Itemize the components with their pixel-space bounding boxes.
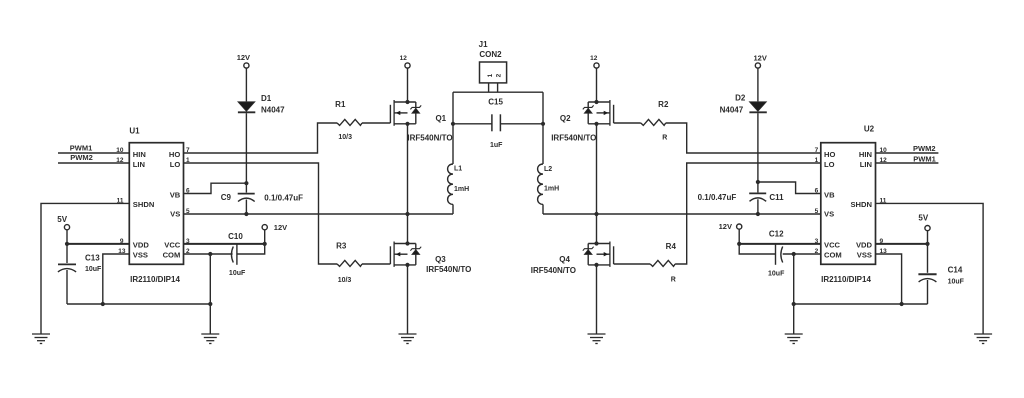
junction rail/ground right <box>792 302 796 306</box>
svg-text:PWM1: PWM1 <box>913 154 936 163</box>
svg-text:1mH: 1mH <box>454 186 469 193</box>
svg-text:10uF: 10uF <box>85 266 102 273</box>
label C13 <box>85 253 102 273</box>
junction Q3 drain <box>405 241 409 245</box>
label 5V left <box>57 215 67 224</box>
transistor Q1 IRF540N/TO <box>390 100 421 126</box>
IC U1 IR2110/DIP14 body <box>129 143 183 265</box>
svg-text:13: 13 <box>880 248 888 255</box>
label L2 <box>544 166 559 193</box>
junction 5V/VDD/C14 <box>925 242 929 246</box>
value 1uF C15 <box>490 142 503 149</box>
terminal 12V top left <box>244 63 249 68</box>
wire PWM1 to U1 HIN pin 10 <box>58 152 129 154</box>
value R R2 <box>662 134 667 141</box>
wire terminal to Q1 drain <box>407 68 409 102</box>
svg-text:IRF540N/TO: IRF540N/TO <box>426 265 471 274</box>
wire COM branch down to rail right <box>793 254 795 304</box>
svg-text:HO: HO <box>169 150 180 159</box>
svg-text:12: 12 <box>400 55 408 62</box>
junction D1/C9/VB <box>244 181 248 185</box>
net label PWM2 right <box>913 144 936 153</box>
svg-text:CON2: CON2 <box>479 50 502 59</box>
svg-text:L2: L2 <box>544 166 552 173</box>
svg-text:1uF: 1uF <box>490 142 503 149</box>
svg-text:5V: 5V <box>57 215 67 224</box>
svg-text:VS: VS <box>824 209 834 218</box>
svg-text:C13: C13 <box>85 253 100 262</box>
terminal 12 above Q1 <box>405 63 410 68</box>
value 0.1/0.47uF C11 <box>698 193 737 202</box>
label 12V mid left <box>274 223 287 232</box>
svg-text:1mH: 1mH <box>544 186 559 193</box>
svg-text:VCC: VCC <box>164 241 181 250</box>
svg-text:7: 7 <box>186 147 190 154</box>
svg-text:N4047: N4047 <box>720 106 744 115</box>
junction rail/COM branch <box>208 302 212 306</box>
label 12 above Q2 <box>590 55 598 62</box>
svg-text:VDD: VDD <box>133 241 150 250</box>
svg-text:U2: U2 <box>864 124 875 133</box>
wire U1 HO pin 7 to R1 <box>184 123 338 153</box>
svg-text:9: 9 <box>120 238 124 245</box>
junction D2/C11/VB <box>756 180 760 184</box>
diode D2 N4047 <box>749 102 766 113</box>
svg-text:COM: COM <box>824 251 842 260</box>
svg-text:C12: C12 <box>769 229 784 238</box>
wire left ground rail <box>67 303 210 305</box>
junction VCC/12V/C10 <box>263 242 267 246</box>
svg-text:PWM2: PWM2 <box>913 144 936 153</box>
label J1 <box>479 40 503 59</box>
capacitor C10 10uF <box>231 244 264 265</box>
capacitor C9 0.1/0.47uF <box>238 183 255 214</box>
resistor R3 10/3 <box>337 260 362 266</box>
wire 12V terminal down <box>738 229 740 244</box>
ground symbol right rail <box>785 334 803 344</box>
label U1 <box>129 126 140 135</box>
label 12V mid right <box>719 222 732 231</box>
svg-text:IRF540N/TO: IRF540N/TO <box>407 133 452 142</box>
wire terminal to Q2 drain <box>596 68 598 102</box>
svg-text:5: 5 <box>186 208 190 215</box>
svg-text:R1: R1 <box>335 100 346 109</box>
junction C11/VS <box>756 212 760 216</box>
svg-text:7: 7 <box>815 147 819 154</box>
svg-text:D2: D2 <box>735 94 746 103</box>
label 12V top left <box>237 53 250 62</box>
svg-text:1: 1 <box>487 73 494 77</box>
wire U2 HIN pin 10 to PWM2 <box>876 152 939 154</box>
wire U2 VB pin 6 step to bootstrap node <box>758 182 821 194</box>
wire COM branch down to rail <box>209 254 211 304</box>
net label PWM2 left <box>70 153 93 162</box>
label C9 <box>221 193 232 202</box>
svg-text:2: 2 <box>815 248 819 255</box>
U2 pin numbers <box>815 147 887 255</box>
resistor R4 R <box>650 260 675 266</box>
label C11 <box>769 193 784 202</box>
wire Q4 source to ground <box>596 265 598 334</box>
junction Q3 source <box>405 263 409 267</box>
svg-text:IRF540N/TO: IRF540N/TO <box>531 266 576 275</box>
svg-text:VSS: VSS <box>857 251 872 260</box>
wire PWM2 to U1 LIN pin 12 <box>58 162 129 164</box>
svg-text:Q2: Q2 <box>560 114 571 123</box>
wire Q3 source to ground <box>407 265 409 334</box>
label Q3 <box>426 255 471 274</box>
wire U1 SHDN pin 11 to ground <box>41 203 129 334</box>
svg-text:10/3: 10/3 <box>338 134 352 141</box>
terminal 12V mid right <box>737 224 742 229</box>
svg-text:C9: C9 <box>221 193 232 202</box>
wire R2 to U2 HO pin 7 <box>666 123 821 153</box>
resistor R2 R <box>641 119 666 125</box>
wire U1 VS pin 5 to L1 bottom <box>184 213 454 215</box>
J1 pin digits rotated <box>487 73 502 77</box>
svg-text:12V: 12V <box>719 222 732 231</box>
svg-text:5: 5 <box>815 208 819 215</box>
svg-text:3: 3 <box>815 238 819 245</box>
label IR2110/DIP14 U1 <box>130 275 180 284</box>
svg-text:11: 11 <box>880 197 887 204</box>
svg-text:10: 10 <box>880 147 888 154</box>
svg-text:HIN: HIN <box>859 150 872 159</box>
wire U2 VCC pin 3 to 12V node <box>739 243 821 245</box>
value 10/3 R1 <box>338 134 352 141</box>
svg-text:C11: C11 <box>769 193 784 202</box>
svg-text:PWM2: PWM2 <box>70 153 93 162</box>
junction COM/ground branch <box>208 252 212 256</box>
ground symbol under Q4 <box>588 334 606 344</box>
junction C15 right <box>541 122 545 126</box>
net label PWM1 right <box>913 154 936 163</box>
svg-text:6: 6 <box>186 187 190 194</box>
wire Q2 source to VS node <box>596 124 598 214</box>
junction Q2/Q4/VS <box>594 212 598 216</box>
svg-text:VB: VB <box>170 190 181 199</box>
wire Q4 gate to R4 <box>614 263 651 265</box>
svg-text:12V: 12V <box>237 53 250 62</box>
svg-text:1: 1 <box>186 157 190 164</box>
svg-text:HIN: HIN <box>133 150 146 159</box>
svg-text:12V: 12V <box>274 223 287 232</box>
label R1 <box>335 100 346 109</box>
svg-text:2: 2 <box>186 248 190 255</box>
wire Q2 gate to R2 <box>614 122 641 124</box>
wire J1 bus to C15 rails <box>453 92 543 124</box>
svg-text:13: 13 <box>118 248 126 255</box>
svg-text:10uF: 10uF <box>948 279 965 286</box>
svg-text:12: 12 <box>590 55 598 62</box>
svg-text:LO: LO <box>170 160 181 169</box>
wire 12V to D1 anode <box>245 68 247 101</box>
inductor L1 1mH <box>448 124 453 214</box>
U1 pin names <box>133 150 181 260</box>
svg-text:VSS: VSS <box>133 251 148 260</box>
svg-text:R: R <box>662 134 667 141</box>
inductor L2 1mH <box>538 124 543 214</box>
label Q2 <box>551 114 596 143</box>
label C10 <box>228 232 246 277</box>
junction Q1 source <box>405 122 409 126</box>
svg-text:SHDN: SHDN <box>850 200 872 209</box>
terminal 12V top right <box>755 63 760 68</box>
svg-text:C15: C15 <box>488 98 503 107</box>
wire R1 to Q1 gate <box>362 122 390 124</box>
svg-text:LIN: LIN <box>860 160 872 169</box>
svg-text:10uF: 10uF <box>229 270 246 277</box>
ground symbol left SHDN <box>32 334 50 344</box>
svg-text:R2: R2 <box>658 100 669 109</box>
U1 pin numbers <box>116 147 190 255</box>
value 0.1/0.47uF C9 <box>264 194 303 203</box>
label Q4 <box>531 255 576 275</box>
label Q1 <box>407 114 452 143</box>
wire 12V terminal down <box>264 230 266 244</box>
wire U2 VS pin 5 to L2 bottom <box>543 213 821 215</box>
wire D2 cathode to VB node <box>757 113 759 182</box>
svg-text:IRF540N/TO: IRF540N/TO <box>551 133 596 142</box>
svg-text:LO: LO <box>824 160 835 169</box>
junction VSS/rail <box>101 302 105 306</box>
junction C15 left <box>451 122 455 126</box>
label R4 <box>666 242 677 251</box>
ground symbol left rail <box>201 334 219 344</box>
svg-text:11: 11 <box>117 197 124 204</box>
IC U2 IR2110/DIP14 body <box>821 143 876 265</box>
wire D1 cathode to VB node <box>245 113 247 183</box>
svg-text:C14: C14 <box>948 266 963 275</box>
transistor Q4 IRF540N/TO <box>583 242 614 267</box>
svg-text:U1: U1 <box>129 126 140 135</box>
value R R4 <box>671 277 676 284</box>
junction Q1/Q3/VS <box>405 212 409 216</box>
connector J1 CON2 <box>480 62 507 92</box>
svg-text:Q3: Q3 <box>435 255 446 264</box>
wire U2 VSS pin 13 down to rail <box>876 254 902 304</box>
svg-text:6: 6 <box>815 187 819 194</box>
wire Q1 source to VS node <box>407 124 409 214</box>
svg-text:12: 12 <box>116 157 124 164</box>
terminal 5V right <box>925 226 930 231</box>
svg-text:10/3: 10/3 <box>338 277 352 284</box>
label R2 <box>658 100 669 109</box>
svg-text:PWM1: PWM1 <box>70 144 93 153</box>
label D1 <box>261 94 285 115</box>
label D2 <box>720 94 746 115</box>
resistor R1 10/3 <box>337 119 362 125</box>
wire R3 to Q3 gate <box>362 263 390 265</box>
svg-text:VS: VS <box>170 209 180 218</box>
capacitor C11 0.1/0.47uF <box>749 182 766 214</box>
wire 5V to U1 VDD pin 9 <box>67 230 129 244</box>
wire VS node to Q4 drain <box>596 214 598 244</box>
transistor Q3 IRF540N/TO <box>390 242 421 267</box>
svg-text:COM: COM <box>163 251 181 260</box>
svg-text:0.1/0.47uF: 0.1/0.47uF <box>264 194 303 203</box>
wire U1 VB pin 6 step to bootstrap node <box>184 183 247 193</box>
junction VSS/rail right <box>900 302 904 306</box>
label 12V top right <box>754 54 767 63</box>
junction C9/VS <box>244 212 248 216</box>
svg-text:R3: R3 <box>336 241 347 250</box>
svg-text:10: 10 <box>116 147 124 154</box>
label 5V right <box>918 214 928 223</box>
terminal 12 above Q2 <box>594 63 599 68</box>
svg-text:VDD: VDD <box>856 241 873 250</box>
svg-text:IR2110/DIP14: IR2110/DIP14 <box>821 275 871 284</box>
svg-text:12: 12 <box>880 157 888 164</box>
value 10/3 R3 <box>338 277 352 284</box>
svg-text:R4: R4 <box>666 242 677 251</box>
wire VS node to Q3 drain <box>407 214 409 244</box>
svg-text:0.1/0.47uF: 0.1/0.47uF <box>698 193 737 202</box>
junction Q4 drain <box>594 241 598 245</box>
transistor Q2 IRF540N/TO <box>583 100 614 126</box>
svg-text:10uF: 10uF <box>768 271 785 278</box>
wire rail to ground under C10 branch <box>209 304 211 334</box>
svg-text:IR2110/DIP14: IR2110/DIP14 <box>130 275 180 284</box>
junction Q2 source <box>594 122 598 126</box>
svg-text:Q4: Q4 <box>559 255 570 264</box>
wire 12V to D2 anode <box>757 68 759 101</box>
label L1 <box>454 166 469 193</box>
label 12 above Q1 <box>400 55 408 62</box>
svg-text:N4047: N4047 <box>261 106 285 115</box>
wire R4 to U2 LO pin 1 <box>675 163 821 264</box>
wire rail ground drop <box>793 304 795 334</box>
svg-text:2: 2 <box>495 73 502 77</box>
wire 5V to U2 VDD pin 9 <box>876 231 928 244</box>
wire right ground rail <box>794 303 928 305</box>
ground symbol right SHDN <box>974 334 992 344</box>
svg-text:12V: 12V <box>754 54 767 63</box>
wire U2 LIN pin 12 to PWM1 <box>876 162 939 164</box>
svg-text:VCC: VCC <box>824 241 841 250</box>
capacitor C15 1uF <box>453 114 543 131</box>
label R3 <box>336 241 347 250</box>
label C14 <box>948 266 965 286</box>
svg-text:Q1: Q1 <box>435 114 446 123</box>
svg-text:9: 9 <box>880 238 884 245</box>
junction Q2 drain <box>594 100 598 104</box>
U2 pin names <box>824 150 873 260</box>
junction Q4 source <box>594 263 598 267</box>
label IR2110/DIP14 U2 <box>821 275 871 284</box>
capacitor C12 10uF <box>739 244 821 265</box>
svg-text:1: 1 <box>815 157 819 164</box>
junction Q1 drain <box>405 100 409 104</box>
svg-text:J1: J1 <box>479 40 488 49</box>
svg-text:L1: L1 <box>454 166 462 173</box>
wire U1 VCC pin 3 to 12V node <box>184 243 265 245</box>
label U2 <box>864 124 875 133</box>
capacitor C14 10uF <box>918 244 936 304</box>
svg-text:C10: C10 <box>228 232 243 241</box>
terminal 12V mid left <box>262 225 267 230</box>
svg-text:HO: HO <box>824 150 835 159</box>
label C15 <box>488 98 503 107</box>
junction 5V/VDD/C13 <box>65 242 69 246</box>
ground symbol under Q3 <box>399 334 417 344</box>
svg-text:SHDN: SHDN <box>133 200 155 209</box>
wire U1 LO pin 1 to R3 <box>184 163 338 264</box>
wire U1 COM pin 2 to C10 <box>184 253 233 255</box>
svg-text:3: 3 <box>186 238 190 245</box>
svg-text:D1: D1 <box>261 94 272 103</box>
capacitor C13 10uF <box>58 244 76 304</box>
junction 12V/VCC/C12 <box>737 242 741 246</box>
net label PWM1 left <box>70 144 93 153</box>
svg-text:LIN: LIN <box>133 160 145 169</box>
svg-text:R: R <box>671 277 676 284</box>
wire U2 SHDN pin 11 to ground <box>876 203 984 334</box>
svg-text:5V: 5V <box>918 214 928 223</box>
junction COM/ground branch right <box>792 252 796 256</box>
diode D1 N4047 <box>238 102 255 113</box>
terminal 5V left <box>64 225 69 230</box>
label C12 <box>768 229 785 277</box>
wire U1 VSS pin 13 down to rail <box>103 254 130 304</box>
svg-text:VB: VB <box>824 190 835 199</box>
